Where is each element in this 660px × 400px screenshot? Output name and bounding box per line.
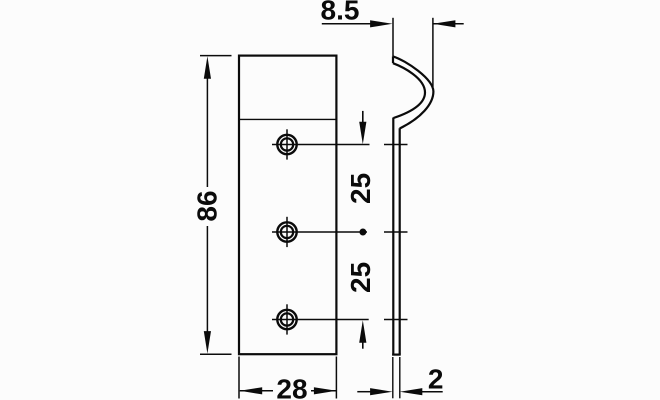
dim 25 lower arrow up with tail	[362, 341, 364, 349]
svg-text:25: 25	[345, 173, 376, 204]
hole H1 inner circle	[281, 138, 293, 150]
dim 86 line upper segment	[206, 72, 208, 187]
hole H2 inner circle	[281, 226, 293, 238]
side view strip left line	[392, 118, 394, 355]
hole H1 horizontal centerline	[272, 144, 370, 146]
dim 86 line lower segment	[206, 226, 208, 340]
bend line	[239, 118, 336, 120]
side view tick mark top	[384, 144, 408, 146]
dim 2 left extension line	[392, 357, 394, 398]
svg-text:28: 28	[276, 374, 307, 400]
dim 8.5 right extension line	[432, 18, 434, 87]
dim 2 right extension line	[399, 357, 401, 398]
dim 28 arrow left	[240, 387, 263, 394]
dim 8.5 line right segment with arrow	[433, 23, 464, 25]
hole H3 horizontal centerline	[272, 319, 369, 321]
hole H2 outer circle	[277, 222, 296, 241]
dim 86 arrow up	[204, 56, 211, 78]
hole H1 vertical centerline	[286, 129, 288, 159]
svg-text:86: 86	[191, 190, 222, 221]
dim 25 origin dot	[359, 229, 366, 236]
dim 28 right extension line	[335, 357, 337, 399]
dim 28 arrow right	[314, 387, 337, 394]
svg-text:8.5: 8.5	[321, 0, 360, 26]
dim 86 arrow down	[204, 331, 211, 354]
side view tick mark bottom	[384, 319, 408, 321]
side view tip end face	[392, 56, 394, 63]
svg-text:25: 25	[345, 262, 376, 293]
svg-text:2: 2	[428, 363, 444, 394]
dim 8.5 left extension line	[392, 18, 394, 57]
side view strip bottom face	[392, 354, 401, 356]
dim 28 left extension line	[238, 357, 240, 399]
dim 28 line left segment	[240, 390, 273, 392]
hole H3 outer circle	[277, 310, 296, 329]
dim 2 line right with arrow	[420, 391, 443, 393]
dim 86 top extension line	[200, 55, 232, 57]
dim 25 upper arrow down with tail	[362, 111, 364, 124]
side view outer hook curve	[393, 56, 433, 128]
hole H2 horizontal centerline	[272, 231, 367, 233]
side view strip right line	[399, 128, 401, 354]
dim 28 line right segment	[311, 390, 336, 392]
dim 8.5 line left segment with arrow	[322, 23, 374, 25]
plate front view outline	[239, 56, 336, 355]
side view tick mark middle	[384, 231, 408, 233]
hole H2 vertical centerline	[286, 217, 288, 247]
hole H3 inner circle	[281, 313, 293, 325]
hole H1 outer circle	[277, 135, 296, 154]
dim 86 bottom extension line	[200, 353, 232, 355]
side view inner hook curve	[393, 63, 425, 118]
dim 2 line left with arrow	[357, 391, 373, 393]
hole H3 vertical centerline	[286, 304, 288, 334]
